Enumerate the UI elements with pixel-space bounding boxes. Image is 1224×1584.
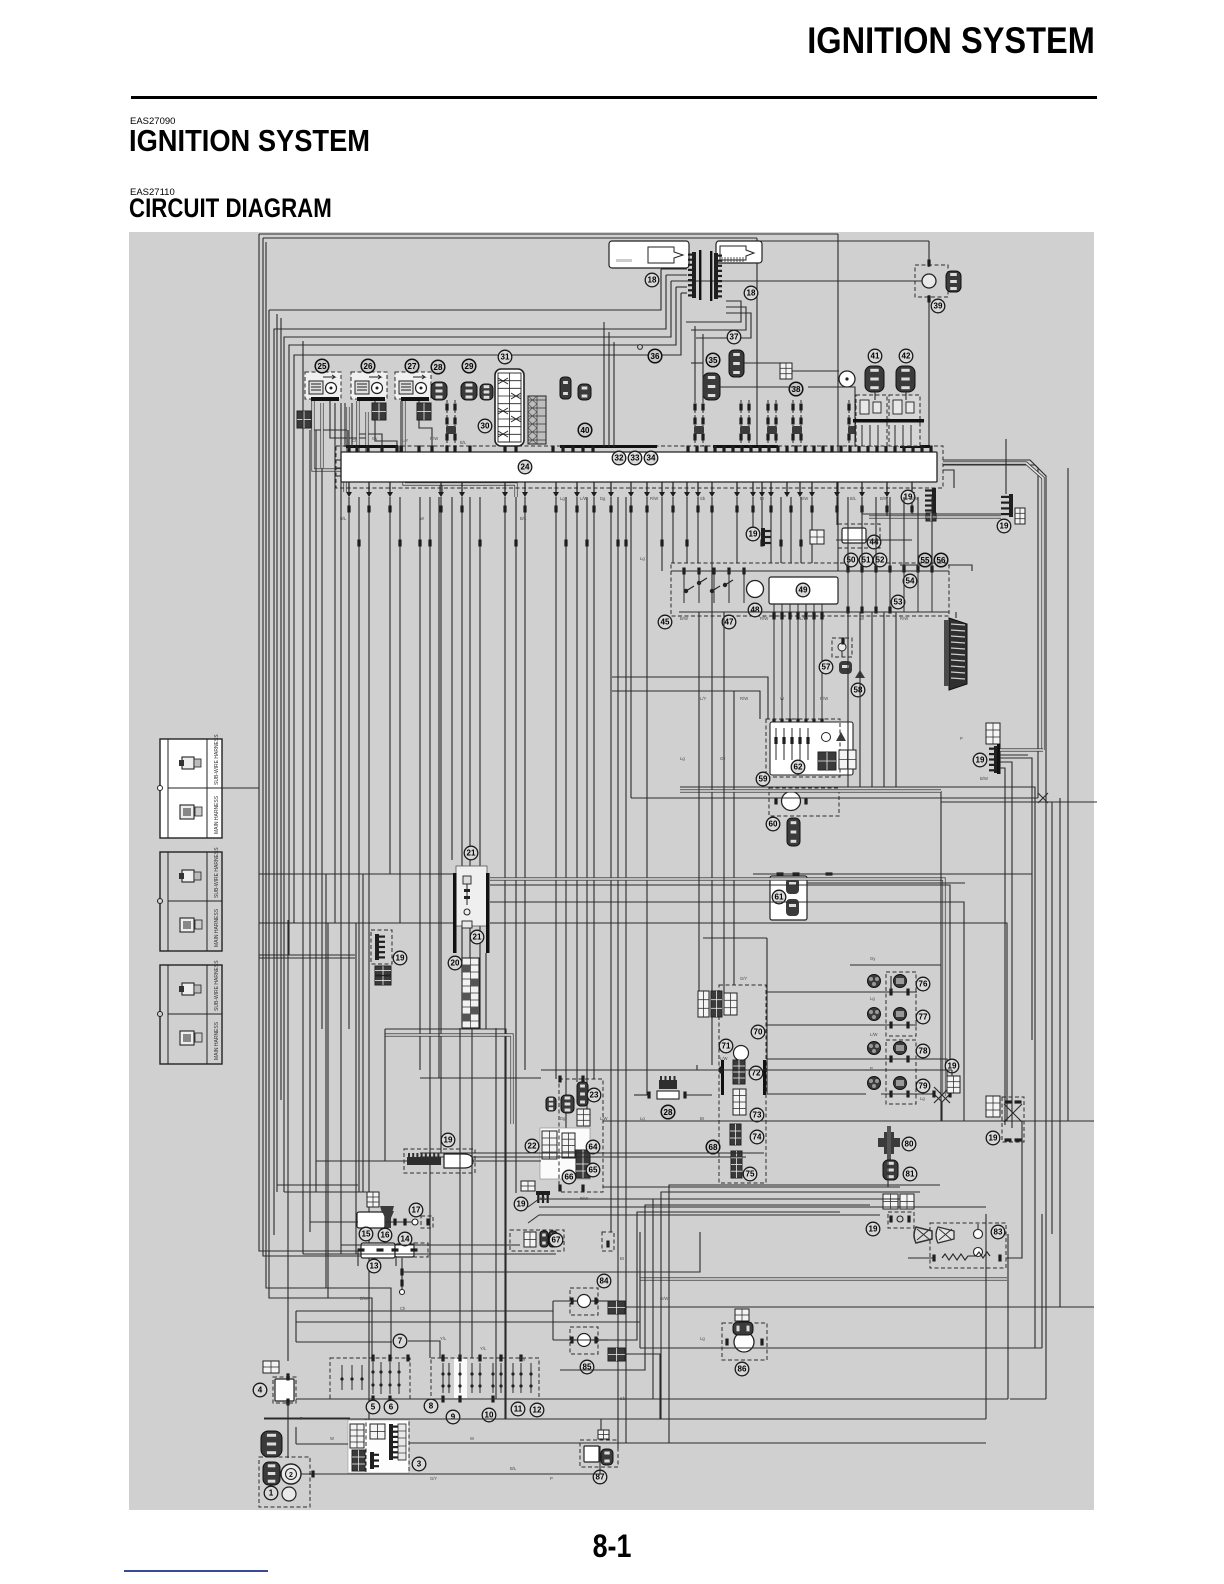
ECU white bar U1	[341, 452, 937, 482]
wire drop x699 low	[698, 612, 700, 991]
wire sensor76 up	[890, 976, 892, 992]
connector 44 white	[842, 528, 866, 543]
node 50	[844, 553, 858, 567]
svg-text:19: 19	[396, 954, 405, 963]
node 23	[587, 1088, 601, 1102]
node 77	[916, 1010, 930, 1024]
connector oval 42	[896, 366, 915, 392]
node 37	[727, 330, 741, 344]
wire sensor78 feed	[767, 1058, 866, 1060]
ECU bottom pin arrows	[346, 482, 915, 497]
node 25 label	[315, 359, 329, 373]
wire h1070 drop	[951, 1070, 953, 1076]
svg-text:L/W: L/W	[580, 496, 587, 501]
svg-text:28: 28	[664, 1108, 673, 1117]
sensor group 76-77 dashed	[886, 972, 916, 1036]
meter connector grid strip	[462, 958, 479, 1028]
node 59	[756, 772, 770, 786]
svg-text:70: 70	[754, 1028, 763, 1037]
svg-text:R/W: R/W	[820, 696, 828, 701]
wire into 21	[363, 873, 453, 875]
svg-text:65: 65	[589, 1166, 598, 1175]
coil winding 25	[309, 381, 323, 394]
speed sensor comb	[407, 1153, 441, 1165]
svg-text:57: 57	[822, 663, 831, 672]
svg-text:B/L: B/L	[850, 496, 857, 501]
fuse 84 dashed	[570, 1288, 598, 1315]
connector 3 grid b	[352, 1450, 365, 1471]
wire h874 left	[259, 873, 390, 875]
wire 37 link	[744, 362, 780, 364]
node 19f	[514, 1197, 528, 1211]
relay box ticks	[682, 566, 933, 614]
svg-text:B/L: B/L	[540, 1196, 547, 1201]
switch 86 dashed	[722, 1323, 767, 1360]
wire drop x604	[603, 322, 605, 447]
horn box dashed	[930, 1223, 1006, 1268]
connector 73 grid	[733, 1089, 746, 1115]
node 1	[264, 1486, 278, 1500]
svg-text:R/W: R/W	[760, 616, 768, 621]
node 19a	[746, 527, 760, 541]
wire 19r out	[1024, 1120, 1094, 1122]
svg-text:R/W: R/W	[580, 1196, 588, 1201]
joint 82 dashed	[888, 1212, 914, 1228]
node 57	[819, 660, 833, 674]
bundle ticks y722	[772, 719, 823, 726]
svg-text:21: 21	[467, 849, 476, 858]
wire v1042	[1041, 1214, 1043, 1348]
15-17 ticks	[393, 1219, 429, 1226]
svg-text:84: 84	[600, 1277, 609, 1286]
fuse grid b	[562, 1133, 575, 1158]
svg-text:77: 77	[919, 1013, 928, 1022]
junction bead	[638, 345, 643, 350]
svg-text:B/L: B/L	[510, 1466, 517, 1471]
svg-text:20: 20	[451, 959, 460, 968]
connector 23 grid	[577, 1109, 590, 1126]
wire bullet out	[473, 1160, 541, 1162]
node 14	[398, 1232, 412, 1246]
svg-text:12: 12	[533, 1406, 542, 1415]
joint 82 ticks	[889, 1216, 910, 1223]
svg-text:51: 51	[862, 556, 871, 565]
wire 42 to coil	[905, 392, 907, 400]
sensor 57 connector oval	[839, 661, 852, 674]
fuse 84 ticks	[570, 1298, 597, 1305]
wire drop x310	[309, 430, 311, 1232]
relay box 45-56 dashed	[671, 563, 949, 616]
connector 67 oval b	[549, 1231, 557, 1247]
meter 21 right bar	[486, 873, 490, 953]
node 19m	[973, 753, 987, 767]
node 83	[991, 1225, 1005, 1239]
wire into 21 lower	[350, 922, 453, 924]
wire drop x486b	[485, 953, 487, 1029]
svg-text:Gy: Gy	[720, 756, 726, 761]
wire 87 feed	[600, 1419, 602, 1430]
svg-text:19: 19	[749, 530, 758, 539]
node 8	[424, 1399, 438, 1413]
thick bar 72a	[721, 1060, 724, 1095]
79 junction ticks	[932, 1091, 951, 1098]
meter 21 white panel	[456, 866, 487, 926]
spark gap 27	[413, 375, 427, 394]
wire nest loop 2	[274, 275, 666, 1235]
connector oval 40b	[578, 384, 591, 400]
svg-text:66: 66	[565, 1173, 574, 1182]
connector hatch 19b	[926, 513, 936, 521]
switch box 8-12 dashed	[431, 1358, 539, 1399]
wire left trunk 3	[266, 242, 391, 1360]
node 61	[772, 890, 786, 904]
wire fuse85 bus	[625, 1354, 660, 1399]
wire drop x335	[334, 403, 336, 923]
node 41	[868, 349, 882, 363]
svg-text:3: 3	[417, 1460, 422, 1469]
svg-text:P: P	[300, 1416, 303, 1421]
svg-text:Dg: Dg	[600, 496, 606, 501]
wire drop x341	[340, 403, 342, 1254]
connector oval 41	[865, 366, 884, 392]
relay internal wires	[684, 567, 932, 612]
wire drop x480	[479, 497, 481, 1029]
coil box 41	[856, 395, 887, 446]
wire left trunk 4	[269, 310, 372, 1360]
main switch 2 double circle	[281, 1464, 301, 1484]
wire top bus B	[263, 237, 757, 239]
connector oval 40a	[560, 377, 571, 399]
wire h923 left	[259, 922, 400, 924]
node 21 top	[464, 846, 478, 860]
horn lead ticks	[932, 1255, 1001, 1262]
wire tall drop x838	[679, 234, 838, 571]
svg-text:75: 75	[746, 1170, 755, 1179]
legend box 3	[158, 960, 223, 1064]
node 40	[578, 423, 592, 437]
svg-text:Lg: Lg	[680, 756, 685, 761]
wire coil1b drop	[330, 401, 368, 446]
fuse 85 symbol	[578, 1334, 591, 1347]
wire fuse84 bus	[625, 1306, 1094, 1308]
wire 4 to 2	[287, 1402, 289, 1458]
svg-text:86: 86	[738, 1365, 747, 1374]
fuse grid a	[542, 1131, 557, 1159]
main switch 1-2 dashed	[259, 1457, 310, 1507]
wire relay low drop x860	[859, 612, 861, 787]
wire stub 660	[659, 1399, 661, 1419]
svg-text:Dg: Dg	[520, 1356, 526, 1361]
node 27 label	[405, 359, 419, 373]
svg-text:71: 71	[722, 1042, 731, 1051]
node 12	[530, 1403, 544, 1417]
connector 38 grid	[780, 363, 792, 379]
svg-text:37: 37	[730, 333, 739, 342]
switch 8-12 ticks	[441, 1355, 522, 1403]
unit 3 comb grid	[398, 1424, 406, 1460]
svg-text:25: 25	[318, 362, 327, 371]
node 76	[916, 977, 930, 991]
wire left trunk 1	[259, 234, 358, 1266]
unit 62 contact rows	[774, 728, 809, 760]
svg-text:6: 6	[389, 1403, 394, 1412]
svg-text:22: 22	[528, 1142, 537, 1151]
wire ecu-relay drop x932	[931, 497, 933, 567]
wire nest stub 4	[681, 292, 687, 294]
sensor group 78-79 dashed	[886, 1040, 916, 1104]
connector 3 grid a	[370, 1424, 385, 1439]
connector xgrid b	[375, 976, 391, 985]
svg-text:Lg: Lg	[920, 1096, 925, 1101]
relay 87 white	[584, 1446, 599, 1462]
sensor 78 lead wire	[881, 1058, 917, 1060]
node 78	[916, 1044, 930, 1058]
node 47	[722, 615, 736, 629]
fuse box white area	[540, 1128, 590, 1179]
wire h1348	[640, 1347, 1042, 1349]
wire unit3 corner	[295, 1427, 297, 1444]
node 55	[918, 553, 932, 567]
stub column blobs	[446, 426, 858, 434]
switch column 70-75 dashed	[719, 985, 766, 1183]
wire h1078	[420, 1077, 541, 1079]
wire drop x631	[630, 497, 632, 798]
wire h874 upper	[753, 873, 944, 875]
wire relay bus bottom	[679, 611, 949, 613]
wire nest stub 1	[661, 268, 687, 270]
wire 55 lead	[900, 564, 918, 566]
wire drop x577	[576, 497, 578, 1082]
connector horn grid b	[900, 1194, 914, 1209]
svg-text:5: 5	[371, 1403, 376, 1412]
connector 67 grid	[524, 1232, 536, 1247]
node 19 s	[945, 1059, 959, 1073]
wire drop x496	[495, 1028, 497, 1399]
svg-text:SUB-WIRE HARNESS: SUB-WIRE HARNESS	[214, 960, 220, 1011]
switch 5-6 ticks	[371, 1355, 409, 1403]
svg-text:74: 74	[753, 1133, 762, 1142]
svg-text:73: 73	[753, 1111, 762, 1120]
svg-text:Br: Br	[700, 1116, 705, 1121]
svg-text:29: 29	[465, 362, 474, 371]
svg-text:B/W: B/W	[880, 496, 888, 501]
svg-text:19: 19	[517, 1200, 526, 1209]
wire sensor76 in	[850, 991, 881, 993]
node 19c	[997, 519, 1011, 533]
sensor 79 lead wire	[881, 1093, 917, 1095]
node 10	[482, 1408, 496, 1422]
svg-text:W: W	[470, 1436, 474, 1441]
connector oval 35a	[703, 373, 720, 400]
wire drop x303	[302, 341, 304, 1254]
svg-text:79: 79	[919, 1082, 928, 1091]
wire h1348 b	[640, 1347, 850, 1349]
relay contacts left	[684, 578, 733, 593]
wire drop x734 low	[733, 691, 735, 985]
svg-text:41: 41	[871, 352, 880, 361]
thick bar 72b	[763, 1060, 766, 1095]
svg-text:Lg: Lg	[700, 1336, 705, 1341]
svg-text:27: 27	[408, 362, 417, 371]
wire h874 right	[836, 873, 1032, 875]
switch 71 circle	[734, 1046, 749, 1061]
wire white coil stub	[320, 403, 323, 468]
wire h1185	[277, 1184, 358, 1186]
13 ticks	[358, 1248, 418, 1251]
wire drop x1060	[1059, 798, 1061, 1307]
coil ground bar 26	[357, 397, 385, 401]
svg-text:W: W	[780, 696, 784, 701]
unit 15 white box	[357, 1212, 385, 1228]
19r x wires	[1004, 1104, 1022, 1122]
wire drop x363	[362, 874, 364, 1192]
switch 86 leads	[725, 1339, 763, 1346]
wire drop x328	[328, 923, 348, 1298]
sensor circle 43	[839, 371, 855, 387]
main fuse 39 box	[915, 265, 948, 297]
node 11	[511, 1402, 525, 1416]
lamp 60 dashed box	[769, 788, 839, 816]
wire h958	[259, 957, 355, 959]
svg-text:13: 13	[370, 1262, 379, 1271]
injector comb connector a	[688, 252, 696, 298]
svg-text:4: 4	[258, 1386, 263, 1395]
wire to unit3	[296, 1443, 348, 1445]
svg-text:54: 54	[906, 577, 915, 586]
svg-text:L/W: L/W	[720, 1056, 727, 1061]
node 62	[791, 760, 805, 774]
unit 62 symbol N	[836, 732, 846, 741]
unit 61 top ticks	[777, 872, 833, 875]
wire drop x712	[711, 497, 713, 1065]
svg-text:MAIN HARNESS: MAIN HARNESS	[214, 1021, 220, 1060]
wire to comb19	[912, 513, 925, 515]
node 66	[562, 1170, 576, 1184]
node 73	[750, 1108, 764, 1122]
node 75	[743, 1167, 757, 1181]
svg-text:80: 80	[905, 1140, 914, 1149]
connector pair 70 left a	[698, 991, 709, 1017]
unit 62 grid b	[839, 750, 856, 769]
wire drop x862	[861, 497, 863, 514]
wire white from 19m	[1000, 748, 1043, 751]
fuse 84 symbol	[578, 1295, 591, 1308]
svg-text:R/W: R/W	[740, 696, 748, 701]
wire corner bundle 2	[661, 1192, 920, 1419]
fuse 85 dashed	[570, 1327, 598, 1354]
wire corner bundle 3	[653, 1199, 900, 1399]
harness block hatched	[528, 396, 546, 444]
svg-text:8: 8	[429, 1402, 434, 1411]
sensor connector 76 b	[894, 975, 907, 988]
svg-text:L/Y: L/Y	[700, 696, 706, 701]
connector joint b	[372, 403, 386, 420]
subsection heading	[129, 193, 332, 225]
node 19L	[393, 951, 407, 965]
unit 62 grid a	[818, 752, 836, 770]
wire coil3b drop	[419, 401, 432, 446]
svg-text:Y/L: Y/L	[440, 1336, 447, 1341]
injector comb connector b	[714, 253, 722, 299]
horn 83 symbol	[936, 1227, 954, 1243]
wire from 19m a	[1000, 758, 1032, 1040]
svg-text:76: 76	[919, 980, 928, 989]
svg-text:18: 18	[747, 289, 756, 298]
wire relay low drop x884	[883, 612, 885, 787]
node 19r	[986, 1131, 1000, 1145]
unit 62 symbol P	[822, 733, 831, 742]
wire drop x687	[686, 497, 688, 563]
connector horn grid a	[883, 1194, 898, 1209]
wire 4 top	[287, 1373, 289, 1377]
connector 60 oval	[787, 818, 800, 846]
svg-text:83: 83	[994, 1228, 1003, 1237]
wire drop x326	[325, 874, 327, 1288]
wire h1245	[341, 1244, 520, 1246]
svg-text:Gy: Gy	[870, 956, 876, 961]
svg-text:Lg: Lg	[560, 496, 565, 501]
node 53	[891, 595, 905, 609]
wire 79 x-join	[891, 1094, 950, 1102]
wire drop x587	[586, 497, 588, 1109]
wire stub 618	[617, 1443, 619, 1448]
resistor 28 body	[657, 1091, 679, 1099]
node 19h	[866, 1222, 880, 1236]
wire drop x556	[555, 497, 557, 1079]
coil 42 ground bar	[887, 419, 924, 423]
wire legend link	[222, 787, 259, 789]
wire fuse85 out	[598, 1339, 608, 1341]
node 87	[593, 1470, 607, 1484]
coil ground bar 27	[401, 397, 429, 401]
svg-text:49: 49	[799, 586, 808, 595]
wire drop x452	[451, 497, 453, 860]
connector 70 grid	[724, 993, 737, 1015]
speed sensor dashed	[404, 1149, 475, 1173]
svg-text:53: 53	[894, 598, 903, 607]
svg-text:G/Y: G/Y	[430, 1476, 437, 1481]
sensor connector 77 a	[868, 1008, 881, 1021]
wire drop x647	[646, 497, 648, 1095]
node 68	[706, 1140, 720, 1154]
wire drop x662	[661, 497, 663, 571]
sensor 77 lead wire	[881, 1024, 917, 1026]
wire 38-43 link	[792, 370, 839, 372]
connector 3 grid left	[350, 1424, 364, 1448]
svg-text:B/W: B/W	[360, 1296, 368, 1301]
wire h1443	[409, 1442, 986, 1444]
svg-text:7: 7	[398, 1337, 403, 1346]
svg-text:19: 19	[869, 1225, 878, 1234]
node 81	[903, 1167, 917, 1181]
svg-text:62: 62	[794, 763, 803, 772]
wire sensor feed trunk	[766, 938, 768, 1094]
wire white h517	[869, 515, 1001, 518]
wire h1418	[264, 1417, 350, 1419]
node 49	[796, 583, 810, 597]
wire white coil stub2	[346, 407, 349, 480]
coil box 42	[889, 395, 920, 446]
wire drop x470	[469, 497, 471, 958]
main connector 63 ribbed block	[944, 618, 967, 690]
wire ecu-relay drop x848	[847, 497, 849, 567]
wire h883	[807, 882, 965, 884]
wire drop x430	[429, 497, 431, 1358]
wire drop x349	[348, 497, 350, 1029]
sensor connector 78 b	[894, 1042, 907, 1055]
connector 19r grid	[986, 1096, 1000, 1117]
node 33	[628, 451, 642, 465]
